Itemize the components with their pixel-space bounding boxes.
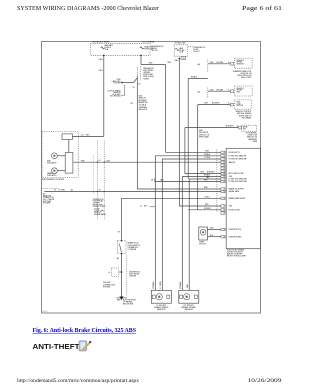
svg-text:HOT AT ALL TIMES: HOT AT ALL TIMES [175, 41, 186, 44]
svg-text:UNDERHOOD: UNDERHOOD [129, 271, 141, 273]
connector (dashed) right column [207, 60, 209, 99]
instrument cluster box (dashed) [42, 131, 78, 181]
diagram border frame [42, 42, 261, 314]
svg-text:S216: S216 [139, 95, 143, 97]
vehicle speed sensor box (dashed) [234, 58, 252, 68]
svg-text:CYLINDER: CYLINDER [128, 249, 137, 251]
svg-text:LF WHL SPD SENS RET: LF WHL SPD SENS RET [229, 179, 247, 181]
svg-text:A2: A2 [117, 257, 119, 260]
underhood fuse block 2 (dashed) [174, 45, 206, 57]
svg-text:BOTTOM FRONT: BOTTOM FRONT [123, 300, 136, 302]
svg-text:SIDE OF: SIDE OF [94, 212, 101, 214]
connector C8 label [179, 57, 186, 60]
svg-text:RD/BLK: RD/BLK [153, 281, 155, 289]
wire RT wheel speed sensor + [185, 172, 221, 174]
svg-text:RT WHL SPD SENS INP: RT WHL SPD SENS INP [229, 159, 247, 161]
svg-text:16: 16 [223, 181, 225, 183]
svg-text:CENTER,: CENTER, [143, 72, 151, 74]
fuse 4WAL IGN FUSE 10A [140, 46, 153, 51]
svg-text:LF WHL SPD SENS INP: LF WHL SPD SENS INP [229, 155, 247, 157]
svg-text:Fig. 6: Anti-lock Brake Circui: Fig. 6: Anti-lock Brake Circuits, 325 AB… [33, 328, 137, 334]
svg-text:HOT AT ALL TIMES: HOT AT ALL TIMES [92, 40, 110, 43]
svg-text:PUMP MTR NEG: PUMP MTR NEG [229, 236, 242, 238]
svg-text:16: 16 [223, 191, 225, 193]
4wd switch box (dashed) [234, 86, 252, 96]
svg-text:SWITCH: SWITCH [237, 105, 244, 107]
svg-text:16: 16 [223, 156, 225, 158]
svg-text:INLINE: INLINE [94, 209, 100, 211]
cluster top module box [62, 134, 72, 153]
svg-text:FRONT OF ENG COMPT: FRONT OF ENG COMPT [227, 256, 246, 258]
svg-text:FRONT LEFT: FRONT LEFT [93, 204, 103, 206]
off page reference A [141, 204, 156, 207]
inline connector label [94, 209, 106, 216]
4wd indicator label text [199, 130, 210, 138]
svg-text:http://ondemand5.com/mric/comm: http://ondemand5.com/mric/common/asp/pri… [17, 378, 139, 384]
svg-text:INSTRUMENT CLUSTER: INSTRUMENT CLUSTER [42, 179, 65, 181]
svg-text:BLK/WHT: BLK/WHT [212, 103, 220, 105]
svg-text:BLK/WHT: BLK/WHT [226, 126, 234, 128]
svg-text:16: 16 [223, 206, 225, 208]
underhood electrical center label [93, 199, 106, 208]
hot at all times label (right) [175, 41, 186, 44]
fuse ABS FUSE 60A [175, 47, 185, 54]
svg-text:16: 16 [223, 210, 225, 212]
svg-text:STEERING: STEERING [139, 107, 148, 109]
svg-text:CENTER,: CENTER, [93, 203, 101, 205]
wire to 4wd indicator box [185, 125, 242, 174]
svg-text:16: 16 [223, 198, 225, 200]
wire brake fluid switch to EBCM [118, 197, 221, 242]
svg-text:ORG: ORG [149, 62, 154, 64]
svg-text:ORG: ORG [200, 172, 205, 174]
svg-text:CONN, LEFT: CONN, LEFT [94, 210, 104, 212]
wire mid bus to brake switch supply pin [137, 76, 221, 190]
svg-text:OF ENGINE,: OF ENGINE, [123, 302, 133, 304]
svg-text:RD/BLK: RD/BLK [191, 77, 198, 79]
svg-text:RD/BLK: RD/BLK [204, 154, 211, 156]
connector C100 (dashed) on mid bus [130, 67, 154, 112]
svg-text:ORG: ORG [205, 150, 210, 152]
data link connector label [43, 189, 59, 205]
svg-text:16: 16 [223, 168, 225, 170]
ABS indicator lamp [47, 153, 65, 164]
LF wheel speed sensor [151, 290, 171, 311]
underhood fuse block 1 (dashed) [90, 43, 164, 55]
EBCM pin boxes and pin labels [221, 151, 247, 238]
svg-text:ANTI-THEFT: ANTI-THEFT [33, 342, 81, 351]
cluster connector box [65, 153, 73, 174]
svg-text:G103: G103 [116, 298, 120, 300]
svg-text:16: 16 [223, 229, 225, 231]
svg-text:ORG: ORG [167, 62, 172, 64]
EBCM module box [226, 148, 260, 248]
hot at all times label [92, 40, 110, 43]
svg-text:P/L: P/L [118, 232, 121, 234]
pump motor M1 [199, 227, 208, 246]
header title [17, 5, 159, 12]
svg-text:INDICATOR: INDICATOR [47, 174, 57, 177]
svg-text:COMPT: COMPT [143, 78, 149, 80]
wire branch to cluster [72, 134, 103, 136]
svg-text:LT GRN: LT GRN [204, 157, 211, 159]
pin of fuse block 1 (ORG) [103, 55, 105, 57]
4wd indicator switch box (dashed) [242, 125, 258, 143]
wire to 4wd switch box [198, 89, 234, 93]
wire pump motor negative [208, 235, 221, 237]
svg-text:SYSTEM: SYSTEM [103, 286, 111, 288]
svg-text:BLOCK: BLOCK [194, 51, 201, 53]
svg-text:(REST OF: (REST OF [139, 98, 146, 100]
transfer case module label [232, 70, 252, 79]
4wd low switch box (dashed) [234, 100, 251, 109]
wire from fuse1 to EBCM pump supply [141, 55, 221, 152]
wire to vehicle speed sensor box [198, 62, 234, 66]
wire ORG bus (fuse1 to instrument cluster) [99, 55, 104, 136]
wire RED bus to EBCM [175, 59, 221, 206]
svg-text:FRONT LEFT: FRONT LEFT [143, 74, 153, 76]
svg-text:BLK/WHT: BLK/WHT [207, 172, 215, 174]
svg-text:ORG: ORG [99, 59, 104, 61]
svg-text:MOTOR: MOTOR [199, 244, 206, 246]
splice S160 alternate label [107, 85, 124, 98]
figure caption link [33, 328, 137, 334]
svg-text:UNDERHOOD: UNDERHOOD [143, 68, 155, 70]
svg-text:SENSOR: SENSOR [237, 64, 245, 66]
svg-text:16: 16 [223, 159, 225, 161]
wire cluster to EBCM (PNK) [73, 160, 221, 162]
wire LF wheel speed sensor - [162, 157, 221, 290]
wire LF wheel speed sensor + [155, 154, 221, 290]
svg-text:ENG COMPT: ENG COMPT [241, 77, 251, 79]
svg-text:SYSTEM WIRING DIAGRAMS -2000 C: SYSTEM WIRING DIAGRAMS -2000 Chevrolet B… [17, 5, 159, 12]
svg-text:16: 16 [223, 236, 225, 238]
svg-text:B: B [228, 89, 229, 91]
svg-text:BELOW GEN: BELOW GEN [123, 304, 134, 306]
svg-text:16: 16 [223, 162, 225, 164]
splice S160 [112, 78, 138, 85]
wire pump motor positive [208, 228, 221, 230]
svg-text:16: 16 [223, 152, 225, 154]
wire switch to ground [117, 253, 122, 297]
svg-text:SIDE OF ENG: SIDE OF ENG [143, 76, 154, 78]
fuse ABS BATT FUSE 4 10A [101, 44, 114, 51]
wire fuse output to EBCM [188, 208, 221, 210]
brake fluid level switch (dashed) [118, 241, 141, 254]
footer url [17, 378, 139, 384]
svg-text:G103: G103 [123, 298, 127, 300]
svg-text:UNDERHOOD: UNDERHOOD [93, 199, 105, 201]
svg-text:XFER CASE: XFER CASE [199, 135, 209, 138]
wire fuse output branch [188, 77, 208, 179]
anti-theft logo [33, 342, 81, 351]
EBCM module label [227, 248, 246, 257]
connector dashed right of ground column [127, 256, 141, 296]
svg-text:RD/WHT: RD/WHT [204, 208, 211, 210]
svg-text:W/O NV3500): W/O NV3500) [110, 96, 121, 98]
ground G103 [116, 297, 136, 306]
svg-text:INST PANEL: INST PANEL [242, 116, 252, 119]
svg-text:10/26/2009: 10/26/2009 [248, 378, 282, 384]
svg-text:FUSE OUTPUT: FUSE OUTPUT [229, 209, 241, 211]
wire RT wheel speed sensor - [189, 176, 221, 290]
wire rear speed sensor to 4wd low switch [198, 102, 234, 210]
svg-text:16: 16 [223, 165, 225, 167]
ground distribution tap [103, 268, 122, 288]
sensor wire labels (rotated) [153, 281, 189, 289]
svg-text:B: B [228, 62, 229, 64]
svg-text:LT GRN: LT GRN [59, 190, 66, 192]
vehicle control module label [236, 111, 253, 119]
svg-text:RT WHL SPD SENS RET: RT WHL SPD SENS RET [229, 181, 248, 183]
pin of fuse block 1 (second) [140, 55, 142, 57]
svg-text:ORG: ORG [204, 103, 209, 105]
svg-text:FUSE 10A: FUSE 10A [144, 48, 153, 51]
hot in run label [143, 41, 155, 43]
svg-text:INDICATOR: INDICATOR [47, 161, 57, 164]
svg-text:16: 16 [223, 213, 225, 215]
wire stop lamp to EBCM [155, 178, 221, 181]
svg-text:PPL: PPL [130, 103, 133, 105]
svg-text:P/L: P/L [132, 87, 135, 89]
svg-text:FUSE SUPPLY: FUSE SUPPLY [229, 152, 241, 154]
svg-text:SENSOR: SENSOR [184, 309, 193, 311]
svg-text:C8: C8 [182, 58, 184, 60]
svg-text:(DLC), UNDER: (DLC), UNDER [43, 199, 55, 201]
wire RT wheel sensor to EBCM gnd [182, 175, 221, 291]
svg-text:WHT: WHT [204, 179, 208, 181]
svg-text:CENTER: CENTER [129, 275, 137, 277]
svg-text:4 CBL: 4 CBL [106, 160, 111, 162]
RT wheel speed sensor [179, 290, 199, 311]
svg-text:OF ENG COMPT: OF ENG COMPT [93, 206, 106, 208]
svg-text:(RH): (RH) [117, 299, 121, 301]
footer date [248, 378, 282, 384]
svg-text:LEFT SIDE: LEFT SIDE [43, 201, 52, 203]
svg-text:B6: B6 [99, 160, 101, 162]
svg-text:RD/BLK: RD/BLK [180, 281, 182, 289]
EBCM connector dashes [216, 149, 218, 213]
svg-text:CONNECTOR: CONNECTOR [43, 197, 54, 199]
svg-text:SENSOR: SENSOR [157, 309, 166, 311]
svg-text:Page 6 of 61: Page 6 of 61 [242, 5, 282, 12]
svg-text:LT GRN: LT GRN [160, 281, 162, 288]
connector C2 dashed verticals [93, 141, 104, 221]
svg-text:PUMP MTR POS: PUMP MTR POS [229, 229, 243, 231]
svg-text:BLOCK: BLOCK [152, 50, 159, 52]
wire serial data from DLC [44, 189, 221, 193]
svg-text:TAN: TAN [186, 284, 189, 288]
header page number [242, 5, 282, 12]
svg-text:LT BLU: LT BLU [204, 197, 210, 199]
svg-text:SYSTEM: SYSTEM [114, 83, 122, 85]
svg-text:SW: SW [243, 129, 246, 131]
svg-text:PPL/WH: PPL/WH [217, 89, 224, 91]
stop lamp switch label [151, 179, 154, 182]
svg-text:ORG: ORG [210, 89, 215, 91]
notes icon [79, 341, 91, 352]
brake indicator lamp [47, 168, 65, 177]
svg-text:PPL/WH: PPL/WH [217, 62, 224, 64]
svg-text:ORG: ORG [86, 134, 91, 136]
svg-text:ORG: ORG [99, 70, 104, 72]
svg-text:BETWEEN: BETWEEN [139, 100, 148, 102]
svg-text:ORG: ORG [210, 62, 215, 64]
